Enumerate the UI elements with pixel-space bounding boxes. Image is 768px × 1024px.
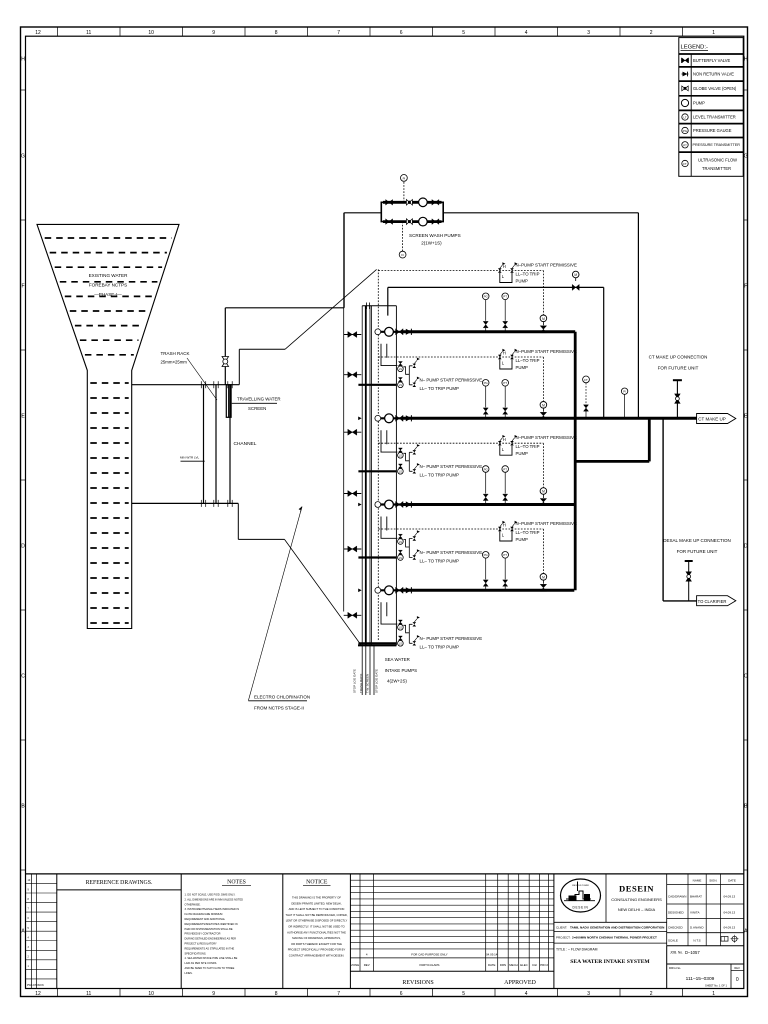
svg-text:LL– TO TRIP PUMP: LL– TO TRIP PUMP	[420, 386, 460, 391]
svg-text:LS: LS	[399, 541, 402, 544]
bay suction stub valve 3	[344, 431, 362, 433]
svg-text:4(2W+2S): 4(2W+2S)	[387, 679, 407, 684]
bay 3 level bar	[358, 556, 396, 558]
svg-text:LL–TO TRIP: LL–TO TRIP	[516, 444, 540, 449]
svg-text:OR PARTS THEREOF EXCEPT FOR TH: OR PARTS THEREOF EXCEPT FOR THE	[291, 942, 342, 946]
bay suction stub valve 1	[344, 334, 362, 336]
svg-text:8: 8	[275, 30, 278, 36]
svg-text:11: 11	[86, 991, 91, 997]
svg-text:PROJECT:: PROJECT:	[556, 935, 571, 939]
sea water intake pump P1	[385, 327, 394, 336]
channel top diagonal wall	[285, 269, 377, 349]
pump bay box verticals	[361, 306, 363, 646]
legend symbol globe valve	[682, 87, 689, 89]
svg-text:04.09.13: 04.09.13	[724, 926, 736, 930]
train 3 signal dashed logic to MOV	[542, 443, 544, 487]
train 3 level logic loop	[500, 446, 512, 456]
bay 2 level switch connectors	[403, 452, 412, 471]
svg-text:04.09.14: 04.09.14	[486, 952, 498, 956]
svg-text:1. DO NOT SCALE, USE FIGD. DIM: 1. DO NOT SCALE, USE FIGD. DIMS ONLY.	[185, 893, 236, 897]
svg-text:PUMP: PUMP	[516, 451, 529, 456]
pump P2 discharge butterfly valve	[396, 415, 404, 421]
svg-text:LS: LS	[399, 557, 402, 560]
train 1 logic flags	[498, 268, 502, 272]
bay 1 level bar	[358, 384, 396, 386]
svg-text:ZONE: ZONE	[351, 963, 359, 967]
pump train 2 suction link	[381, 417, 403, 419]
svg-text:C&I: C&I	[532, 963, 537, 967]
svg-text:4: 4	[525, 30, 528, 36]
svg-text:LL– TO TRIP PUMP: LL– TO TRIP PUMP	[420, 644, 460, 649]
train 4 pressure gauge	[485, 558, 487, 579]
svg-text:C: C	[744, 674, 748, 680]
screen wash bottom branch globe valve	[406, 219, 412, 225]
svg-text:NOTICE: NOTICE	[306, 879, 328, 885]
train 2 logic flags	[498, 355, 502, 359]
travelling water screen bar	[229, 385, 231, 504]
screen wash pump 2	[419, 217, 428, 226]
svg-text:PROJECT SPECIFICALLY PROVIDED: PROJECT SPECIFICALLY PROVIDED FOR BY	[288, 948, 346, 952]
svg-text:STOP LOG GATE: STOP LOG GATE	[353, 669, 357, 693]
svg-text:2: 2	[650, 991, 653, 997]
train 2 PG root valve	[483, 408, 488, 414]
svg-text:6: 6	[400, 991, 403, 997]
pump P3 non return valve	[406, 501, 412, 507]
svg-text:PI: PI	[403, 176, 406, 180]
svg-text:ELEC: ELEC	[520, 963, 528, 967]
legend symbol pump	[681, 99, 688, 106]
train 4 level logic loop	[500, 531, 512, 541]
sea water intake pump P3	[385, 500, 394, 509]
header flow transmitter	[585, 383, 587, 404]
notes column	[282, 874, 284, 989]
bay 3 suction tick	[358, 503, 361, 507]
svg-text:7: 7	[337, 991, 340, 997]
svg-text:LS: LS	[399, 455, 402, 458]
svg-text:FOREBAY NCTPS: FOREBAY NCTPS	[89, 283, 127, 288]
svg-text:SCALE: SCALE	[668, 939, 678, 943]
trash rack bars	[203, 385, 205, 504]
sea water intake pump P2	[385, 414, 394, 423]
bay 4 level switch flags	[413, 622, 417, 626]
bay 4 suction tick	[358, 589, 361, 593]
svg-text:SCREEN: SCREEN	[248, 406, 266, 411]
svg-text:REVISIONS: REVISIONS	[402, 980, 433, 986]
svg-text:PRESSURE TRANSMITTER: PRESSURE TRANSMITTER	[693, 143, 741, 147]
screen wash top branch pipe	[383, 201, 442, 204]
screen wash suction riser	[637, 213, 639, 418]
svg-text:SEA WATER INTAKE SYSTEM: SEA WATER INTAKE SYSTEM	[570, 959, 650, 965]
svg-text:10: 10	[148, 991, 154, 997]
svg-text:—PHASE-I—: —PHASE-I—	[94, 292, 122, 297]
svg-text:MAKING OF DRAWINGS, APPARATUS: MAKING OF DRAWINGS, APPARATUS,	[292, 936, 341, 940]
bay 4 level bar	[358, 642, 396, 644]
bay 1 level switch high	[398, 362, 402, 366]
pump train 2 discharge pipe	[403, 417, 697, 420]
legend box	[679, 38, 743, 177]
screen wash bottom branch discharge valve	[432, 219, 439, 225]
bay 3 level switch low	[398, 550, 402, 554]
train 3 PG root valve	[483, 494, 488, 500]
svg-text:REQUIREMENTS/SKETCHES IDENTIFI: REQUIREMENTS/SKETCHES IDENTIFIED IN	[185, 922, 238, 926]
svg-text:2×600MW NORTH CHENNAI THERMAL: 2×600MW NORTH CHENNAI THERMAL POWER PROJ…	[572, 935, 657, 939]
train 2 signal dashed logic to MOV	[542, 357, 544, 401]
svg-text:TRASH RACK: TRASH RACK	[161, 351, 190, 356]
svg-text:APPROVED: APPROVED	[504, 980, 536, 986]
pump bay box right wall	[395, 306, 397, 646]
pump P4 non return valve	[406, 587, 412, 593]
pump train 4 suction link	[381, 589, 403, 591]
svg-text:TRAVELLING WATER: TRAVELLING WATER	[237, 397, 281, 402]
svg-text:2: 2	[650, 30, 653, 36]
discharge manifold vertical x575	[574, 332, 577, 591]
train 3 pressure transmitter	[504, 472, 506, 493]
svg-text:SIGN.: SIGN.	[709, 879, 717, 883]
svg-text:DATE: DATE	[488, 963, 496, 967]
svg-text:C: C	[21, 674, 25, 680]
svg-text:CONSULTING ENGINEERS: CONSULTING ENGINEERS	[611, 897, 662, 902]
svg-text:D.ANAND: D.ANAND	[690, 926, 704, 930]
svg-text:5: 5	[462, 30, 465, 36]
forebay funnel outline	[37, 224, 179, 628]
svg-text:LS: LS	[399, 627, 402, 630]
svg-text:H: H	[21, 57, 25, 63]
grid reference letters left band	[21, 57, 26, 935]
svg-text:N– PUMP START PERMISSIVE: N– PUMP START PERMISSIVE	[420, 550, 483, 555]
pump train 1 discharge pipe	[403, 330, 576, 333]
screen wash pressure instrument bottom	[402, 222, 404, 251]
svg-text:F: F	[21, 284, 24, 290]
wash water line to pump bays	[388, 286, 604, 288]
instrument signal dashed riser	[377, 269, 379, 640]
svg-text:PG: PG	[683, 129, 687, 133]
svg-text:EXISTING WATER: EXISTING WATER	[89, 273, 128, 278]
svg-text:THIS DRAWING IS THE PROPERTY O: THIS DRAWING IS THE PROPERTY OF	[292, 896, 341, 900]
pump P1 discharge butterfly valve	[396, 329, 404, 335]
svg-text:0: 0	[736, 977, 739, 983]
legend symbol non return valve	[682, 73, 689, 75]
reference drawings column	[180, 874, 182, 989]
train 2 PT root valve	[503, 408, 508, 414]
svg-text:BHARAT: BHARAT	[690, 895, 702, 899]
pump P3 discharge butterfly valve	[396, 501, 404, 507]
svg-text:H: H	[503, 437, 506, 442]
bay 1 level switch low	[398, 378, 402, 382]
svg-text:CLIENT:: CLIENT:	[556, 926, 567, 930]
desal stub globe valve	[686, 572, 692, 582]
svg-text:CT MAKE UP: CT MAKE UP	[698, 417, 725, 422]
train 4 motor operated valve	[540, 574, 547, 581]
svg-text:111–15–0309: 111–15–0309	[686, 976, 715, 982]
svg-text:12: 12	[35, 991, 41, 997]
train 4 signal dashed to logic flags	[378, 528, 543, 530]
svg-text:DRG.No.: DRG.No.	[669, 966, 681, 970]
screen wash top branch globe valve	[406, 200, 412, 206]
train 2 pressure gauge	[485, 386, 487, 407]
grid reference letters right band	[744, 57, 748, 935]
bay 4 level switch high	[398, 620, 402, 624]
to clarifier flow arrow flag	[697, 596, 736, 606]
train 2 level logic loop	[500, 359, 512, 369]
pump bay box top	[362, 305, 396, 307]
pump bay box left wall	[343, 213, 345, 612]
sea water intake pump P1 motor instrument	[375, 329, 381, 335]
screen wash line to channel screen	[225, 307, 344, 309]
svg-text:PWS DIVISION: PWS DIVISION	[27, 984, 44, 987]
bay 3 level switch flags	[413, 536, 417, 540]
svg-text:LL–TO TRIP: LL–TO TRIP	[516, 358, 540, 363]
train 4 PT root valve	[503, 580, 508, 586]
svg-text:CHANNEL: CHANNEL	[234, 441, 257, 447]
svg-text:M: M	[542, 490, 545, 494]
svg-text:REQUIREMENTS AS STIPULATED IN: REQUIREMENTS AS STIPULATED IN THE	[185, 946, 235, 950]
screen wash pressure instrument top	[403, 182, 405, 203]
svg-text:H: H	[503, 523, 506, 528]
trash rack leader line	[187, 358, 217, 400]
svg-text:2. ALL DIMENSIONS ARE IN MM UN: 2. ALL DIMENSIONS ARE IN MM UNLESS NOTED	[185, 897, 244, 901]
svg-text:SHEET No. 1 OF 1: SHEET No. 1 OF 1	[705, 984, 728, 988]
train 1 PG root valve	[483, 321, 488, 327]
bay 2 level switch flags	[413, 450, 417, 454]
svg-text:1: 1	[712, 991, 715, 997]
train 3 logic flags	[498, 441, 502, 445]
svg-text:LAID AS PER SITE CONDS.: LAID AS PER SITE CONDS.	[185, 961, 218, 965]
bay 2 level bar	[358, 470, 396, 472]
title block top border	[26, 873, 744, 875]
bay 2 suction pipes to level switches	[381, 430, 397, 452]
bay 3 level switch connectors	[403, 539, 412, 558]
revision index table left	[31, 874, 33, 989]
svg-text:3: 3	[587, 30, 590, 36]
train 4 PG root valve	[483, 580, 488, 586]
svg-text:PT: PT	[503, 381, 507, 385]
train 2 pressure transmitter	[504, 386, 506, 407]
electro chlorination leader arrow	[248, 512, 300, 701]
svg-text:PROVIDED BY CONTRACTOR: PROVIDED BY CONTRACTOR	[185, 932, 221, 936]
desal make up future connection stub	[688, 562, 690, 601]
svg-text:FOR FUTURE UNIT: FOR FUTURE UNIT	[677, 549, 718, 554]
channel top wall	[132, 384, 240, 386]
legend symbol ultrasonic flow transmitter	[682, 160, 688, 166]
bay 3 level switch high	[398, 534, 402, 538]
train 4 signal dashed logic to MOV	[542, 529, 544, 573]
svg-text:3: 3	[587, 991, 590, 997]
svg-text:PUMP: PUMP	[516, 279, 529, 284]
svg-text:ULTRASONIC FLOW: ULTRASONIC FLOW	[698, 158, 737, 163]
pump train 3 discharge pipe	[403, 503, 575, 506]
svg-text:LS: LS	[399, 643, 402, 646]
train 1 level logic loop	[500, 273, 512, 283]
svg-text:REFERENCE DRAWINGS.: REFERENCE DRAWINGS.	[86, 880, 153, 886]
svg-text:AND BE SIZED TO SUIT FLOW TO T: AND BE SIZED TO SUIT FLOW TO THREE	[185, 966, 235, 970]
svg-text:N–PUMP START PERMISSIVE: N–PUMP START PERMISSIVE	[516, 263, 577, 268]
svg-text:LL– TO TRIP PUMP: LL– TO TRIP PUMP	[420, 559, 460, 564]
svg-text:NAME: NAME	[693, 879, 702, 883]
svg-text:DATE: DATE	[728, 879, 736, 883]
train 4 pressure transmitter	[504, 558, 506, 579]
screen wash top branch suction valve	[386, 200, 393, 206]
svg-text:10: 10	[148, 30, 154, 36]
svg-text:4: 4	[525, 991, 528, 997]
screen wash discharge line to screens	[344, 212, 381, 214]
svg-text:LEGEND:-: LEGEND:-	[681, 45, 708, 51]
svg-text:PUMP: PUMP	[516, 537, 529, 542]
svg-text:PROJ: PROJ	[540, 963, 548, 967]
svg-text:LT: LT	[683, 116, 686, 120]
screen wash bottom branch suction valve	[386, 219, 393, 225]
clarifier branch riser	[662, 418, 664, 601]
svg-text:25mm×25mm: 25mm×25mm	[161, 360, 188, 365]
grid reference numbers top band	[35, 27, 715, 36]
grid reference numbers bottom band	[35, 989, 715, 997]
svg-text:REV: REV	[364, 963, 370, 967]
bay 2 level switch high	[398, 448, 402, 452]
pump train 4 discharge pipe	[403, 589, 575, 592]
svg-text:CONTRACT ARRANGEMENT WITH DESE: CONTRACT ARRANGEMENT WITH DESEIN.	[289, 954, 345, 958]
discharge manifold jumper riser	[648, 418, 651, 461]
pump bay lower guides	[361, 645, 363, 695]
low water level marker	[181, 460, 205, 462]
pump P1 non return valve	[406, 329, 412, 335]
bay suction stub valve 4	[344, 493, 362, 495]
svg-text:CHECKED: CHECKED	[668, 926, 684, 930]
svg-text:N– PUMP START PERMISSIVE: N– PUMP START PERMISSIVE	[420, 377, 483, 382]
svg-text:N– PUMP START PERMISSIVE: N– PUMP START PERMISSIVE	[420, 464, 483, 469]
legend symbol pressure gauge	[682, 127, 688, 133]
train 3 motor operated valve	[540, 488, 547, 495]
svg-text:7: 7	[337, 30, 340, 36]
svg-text:FOR CAD PURPOSE ONLY: FOR CAD PURPOSE ONLY	[411, 952, 447, 956]
travelling screen head box	[226, 385, 231, 418]
CT make up flow arrow flag	[697, 414, 736, 424]
svg-text:AND IS LENT SUBJECT TO THE CON: AND IS LENT SUBJECT TO THE CONDITION	[289, 907, 345, 911]
desein title box borders	[553, 874, 555, 989]
svg-text:OR INDIRECTLY. IT SHALL NOT BE: OR INDIRECTLY. IT SHALL NOT BE USED TO	[288, 925, 345, 929]
train 1 signal dashed to logic flags	[378, 270, 543, 272]
train 1 signal dashed logic to MOV	[542, 271, 544, 315]
svg-text:T.W. SCREEN: T.W. SCREEN	[366, 674, 370, 693]
svg-text:F: F	[744, 284, 747, 290]
svg-text:DESEIN PRIVATE LIMITED, NEW DE: DESEIN PRIVATE LIMITED, NEW DELHI,	[291, 901, 342, 905]
svg-text:M: M	[574, 273, 577, 277]
svg-text:5: 5	[462, 991, 465, 997]
revisions table	[349, 874, 351, 989]
svg-text:DESAL MAKE UP CONNECTION: DESAL MAKE UP CONNECTION	[663, 538, 731, 543]
train 2 signal dashed to logic flags	[378, 356, 543, 358]
svg-text:AUTHORISE ANY FUNCTIONALITIES: AUTHORISE ANY FUNCTIONALITIES NOT THE	[287, 930, 346, 934]
svg-text:CAD/DRAWN: CAD/DRAWN	[668, 895, 686, 899]
bay 1 level switch connectors	[403, 366, 412, 385]
screen wash pumps loop frame	[381, 202, 443, 221]
svg-text:11: 11	[86, 30, 91, 36]
svg-text:M: M	[542, 317, 545, 321]
svg-text:PROJECT & REGULATORY: PROJECT & REGULATORY	[185, 942, 218, 946]
svg-text:04.09.13: 04.09.13	[724, 895, 736, 899]
svg-text:2(1W+1S): 2(1W+1S)	[421, 240, 442, 245]
legend symbol butterfly valve	[682, 59, 689, 61]
CT stub globe valve	[674, 394, 680, 404]
bay 4 suction pipes to level switches	[381, 602, 397, 624]
svg-text:SEA WATER: SEA WATER	[385, 657, 410, 662]
train 3 pressure gauge	[485, 472, 487, 493]
svg-text:JOB. No.: JOB. No.	[670, 951, 683, 955]
svg-text:TO CLARIFIER: TO CLARIFIER	[698, 599, 727, 604]
svg-text:04.09.13: 04.09.13	[724, 911, 736, 915]
svg-text:DRN: DRN	[500, 963, 506, 967]
svg-text:H: H	[744, 57, 748, 63]
sea water intake pump P4	[385, 586, 394, 595]
train 3 signal dashed to logic flags	[378, 442, 543, 444]
wash water motorized valve	[572, 271, 579, 278]
train 4 logic flags	[498, 527, 502, 531]
header pressure indicator	[624, 394, 626, 417]
svg-text:REV.: REV.	[734, 966, 740, 970]
svg-text:FI: FI	[401, 253, 404, 257]
channel wall step up	[238, 349, 240, 384]
sea water intake pump P3 motor instrument	[375, 502, 381, 508]
pump bay box bottom	[358, 644, 396, 646]
svg-text:SCREEN WASH PUMPS: SCREEN WASH PUMPS	[409, 233, 461, 238]
svg-text:N– PUMP START PERMISSIVE: N– PUMP START PERMISSIVE	[420, 636, 483, 641]
svg-text:PUMP: PUMP	[693, 100, 705, 105]
screen wash bottom branch pipe	[383, 220, 442, 223]
screen wash discharge downcomer	[343, 213, 345, 308]
svg-text:SPECIFICATIONS.: SPECIFICATIONS.	[185, 951, 207, 955]
pump train 1 suction link	[381, 331, 403, 333]
svg-text:H: H	[503, 351, 506, 356]
legend symbol level transmitter	[682, 114, 688, 120]
svg-text:PRESSURE GAUGE: PRESSURE GAUGE	[693, 128, 732, 133]
svg-text:G: G	[744, 154, 748, 160]
svg-text:6: 6	[400, 30, 403, 36]
svg-text:DESEIN: DESEIN	[619, 884, 654, 894]
bay 4 level switch connectors	[403, 624, 412, 643]
train 3 PT root valve	[503, 494, 508, 500]
svg-text:VINITA: VINITA	[690, 911, 699, 915]
wash water drop into bay box	[387, 287, 389, 315]
train 1 pressure gauge	[485, 299, 487, 320]
svg-text:LS: LS	[399, 368, 402, 371]
svg-text:THAT IT SHALL NOT BE REPRODUCE: THAT IT SHALL NOT BE REPRODUCED, COPIED,	[285, 913, 347, 917]
label existing water forebay	[89, 273, 128, 297]
sea water intake pump P2 motor instrument	[375, 415, 381, 421]
svg-text:N–PUMP START PERMISSIVE: N–PUMP START PERMISSIVE	[516, 521, 577, 526]
svg-text:FT: FT	[584, 378, 588, 382]
label sea water intake pumps	[385, 657, 417, 684]
svg-text:MECH: MECH	[509, 963, 518, 967]
train 1 PT root valve	[503, 321, 508, 327]
legend labels	[693, 58, 741, 171]
svg-text:D–1057: D–1057	[685, 950, 700, 955]
svg-text:G: G	[21, 154, 25, 160]
channel bottom diagonal wall	[285, 539, 362, 645]
svg-text:INTAKE PUMPS: INTAKE PUMPS	[385, 668, 417, 673]
projection symbol	[721, 937, 728, 942]
svg-text:DESIGNED: DESIGNED	[668, 911, 685, 915]
svg-text:LEVEL TRANSMITTER: LEVEL TRANSMITTER	[693, 114, 736, 119]
bay 2 level switch low	[398, 464, 402, 468]
svg-text:NON RETURN VALVE: NON RETURN VALVE	[693, 71, 734, 76]
pump bay box top ticks	[366, 303, 368, 310]
svg-text:OTHERWISE.: OTHERWISE.	[185, 902, 201, 906]
svg-text:PARTICULARS: PARTICULARS	[420, 963, 440, 967]
svg-text:PT: PT	[503, 467, 507, 471]
svg-text:FLOW DIAGRAM ARE MINIMUM: FLOW DIAGRAM ARE MINIMUM	[185, 912, 223, 916]
svg-text:N–PUMP START PERMISSIVE: N–PUMP START PERMISSIVE	[516, 349, 577, 354]
screen wash suction header from discharge header	[443, 212, 638, 214]
svg-text:REQUIREMENT AND ADDITIONAL: REQUIREMENT AND ADDITIONAL	[185, 917, 226, 921]
svg-text:FT: FT	[683, 162, 687, 166]
